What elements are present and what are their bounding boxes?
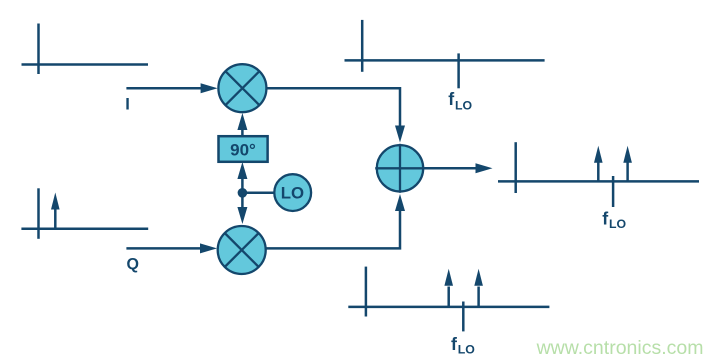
mixer M2 (Q-channel multiplier) xyxy=(218,226,266,274)
wire Q input xyxy=(126,247,201,250)
wire junction to LO xyxy=(242,191,273,194)
spectrum plot S3 impulse 2 stem xyxy=(626,162,629,182)
spectrum plot S1 vertical axis xyxy=(37,24,40,75)
spectrum plot S3 impulse 1 stem xyxy=(597,162,600,182)
arrowhead spectrum S4 impulse 1 xyxy=(444,269,453,286)
wire junction to 90 box xyxy=(241,179,244,193)
svg-text:LO: LO xyxy=(609,217,627,231)
spectrum plot S1 (top-left) horizontal axis xyxy=(22,63,149,66)
svg-text:f: f xyxy=(451,334,457,354)
spectrum plot S4 vertical axis xyxy=(365,267,368,317)
wire mixer M2 output to corner xyxy=(266,211,400,249)
spectrum plot S5 (bottom-left) horizontal axis xyxy=(21,228,148,231)
arrowhead spectrum S4 impulse 2 xyxy=(474,269,483,286)
label fLO spectrum S3 xyxy=(602,208,626,231)
junction node dot (LO split) xyxy=(238,188,248,198)
svg-text:I: I xyxy=(125,96,130,114)
svg-text:LO: LO xyxy=(455,99,473,113)
spectrum plot S4 impulse 1 stem xyxy=(447,287,450,307)
arrowhead Q input into mixer M2 xyxy=(200,243,217,253)
svg-text:LO: LO xyxy=(281,183,304,202)
arrowhead I input into mixer M1 xyxy=(201,83,218,93)
wire mixer M1 output to corner xyxy=(267,88,400,126)
wire summer output xyxy=(424,167,477,170)
LO oscillator circle xyxy=(274,174,311,211)
label fLO spectrum S2 xyxy=(448,89,472,113)
arrowhead into summer bottom xyxy=(395,194,405,211)
arrowhead spectrum S3 impulse 1 xyxy=(594,146,603,163)
arrowhead into summer top xyxy=(395,126,405,143)
spectrum plot S5 vertical axis xyxy=(37,188,40,239)
mixer M1 (I-channel multiplier) xyxy=(218,64,266,112)
spectrum plot S2 (top-middle) horizontal axis xyxy=(345,59,545,62)
summer (adder) xyxy=(375,144,425,193)
svg-text:Q: Q xyxy=(127,256,139,273)
svg-text:f: f xyxy=(448,89,454,109)
wire 90 box to mixer M1 xyxy=(241,130,244,137)
svg-text:LO: LO xyxy=(458,342,476,356)
spectrum plot S3 fLO tick xyxy=(612,176,615,207)
spectrum plot S2 fLO tick xyxy=(457,53,460,88)
wire I input xyxy=(126,87,202,90)
phase shifter box 90deg xyxy=(219,136,268,162)
arrowhead spectrum S5 impulse xyxy=(51,193,60,210)
spectrum plot S2 vertical axis xyxy=(361,20,364,72)
spectrum plot S4 fLO tick xyxy=(462,302,465,332)
svg-text:f: f xyxy=(602,208,608,228)
svg-text:www.cntronics.com: www.cntronics.com xyxy=(536,337,704,359)
arrowhead into 90 box bottom xyxy=(237,162,247,179)
spectrum plot S4 impulse 2 stem xyxy=(477,287,480,307)
arrowhead into mixer M1 bottom from 90 box xyxy=(237,113,247,130)
label fLO spectrum S4 xyxy=(451,334,475,356)
arrowhead spectrum S3 impulse 2 xyxy=(623,146,632,163)
arrowhead summer output xyxy=(476,163,493,173)
wire junction down to mixer M2 xyxy=(241,193,244,207)
spectrum plot S3 (right) horizontal axis xyxy=(498,180,699,183)
spectrum plot S4 (bottom-middle) horizontal axis xyxy=(348,306,549,309)
svg-text:90°: 90° xyxy=(230,140,256,159)
spectrum plot S3 vertical axis xyxy=(514,142,517,193)
arrowhead down into mixer M2 top xyxy=(237,207,247,224)
spectrum plot S5 impulse stem xyxy=(54,208,57,229)
